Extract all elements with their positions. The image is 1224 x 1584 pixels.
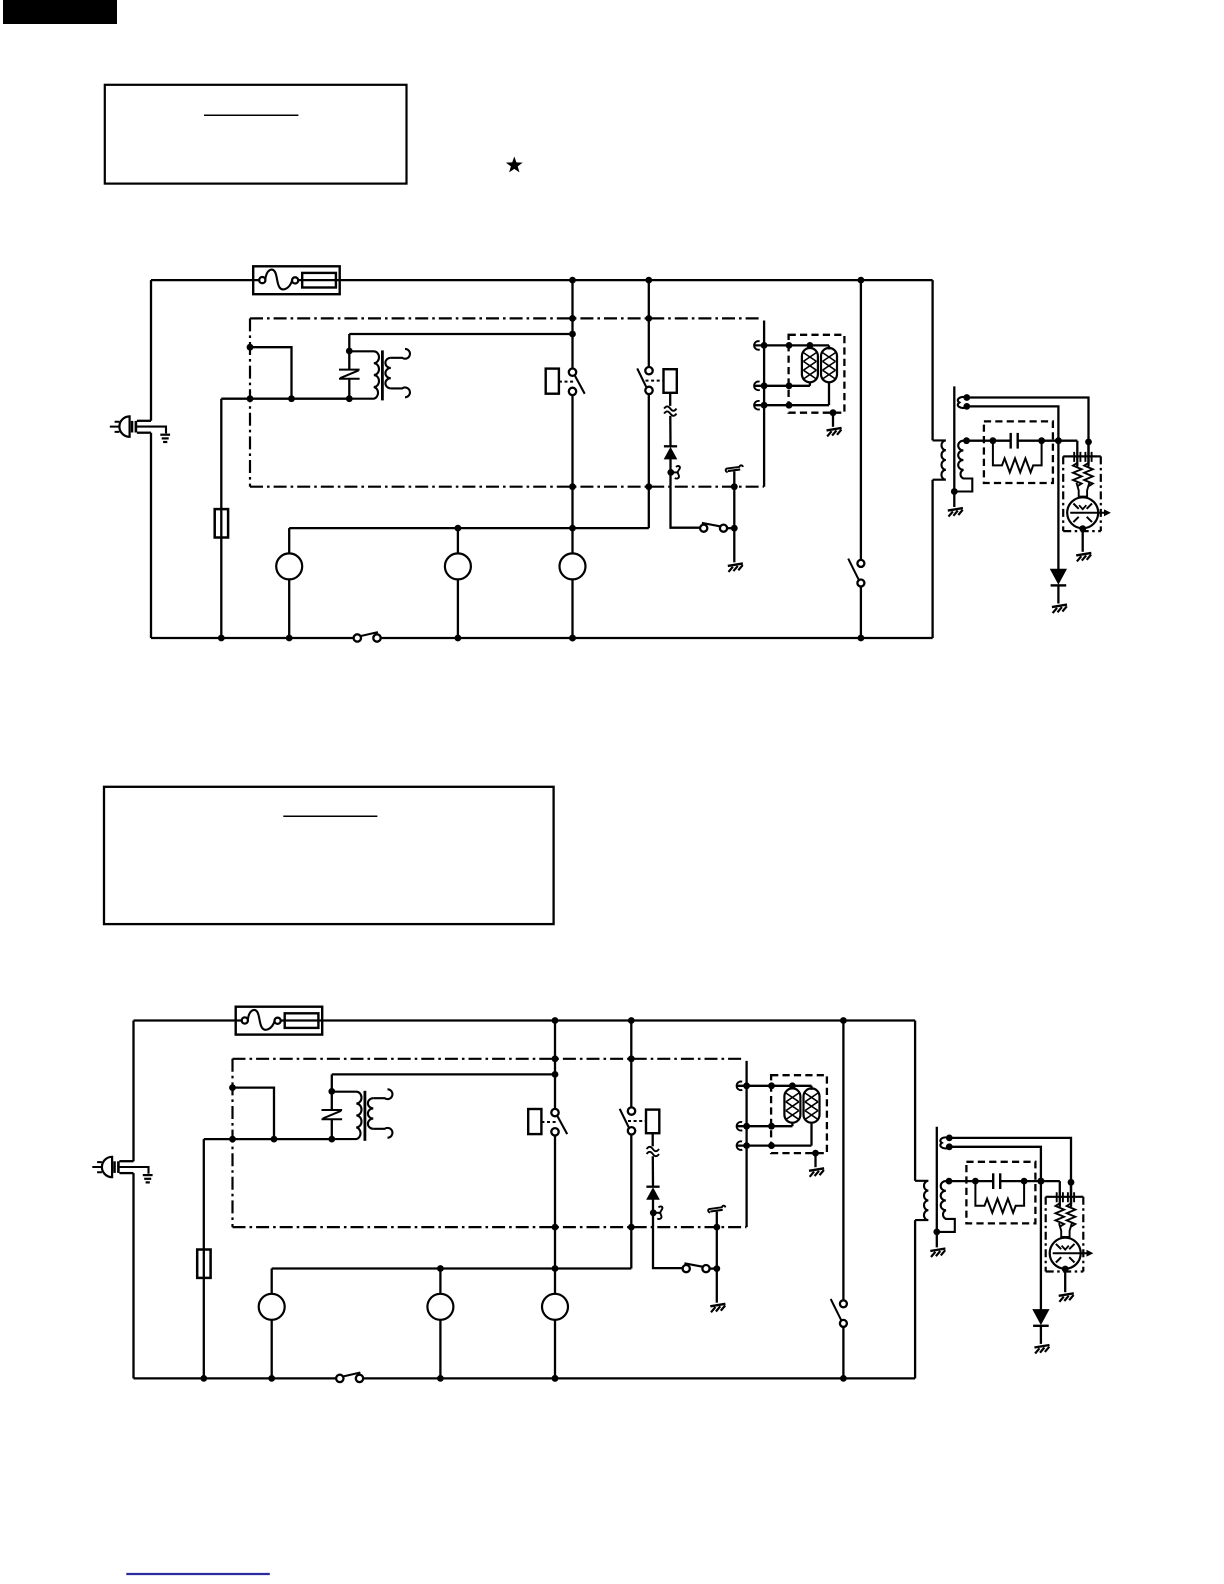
star marker [506, 157, 523, 173]
bleeder resistor (schematic 2) [975, 1181, 1024, 1213]
door switch right terminal (schematic 1) [373, 634, 380, 641]
node heater wire3 (schematic 1) [761, 402, 768, 409]
wire primary feed line (schematic 1) [221, 398, 349, 400]
node bleeder left (schematic 2) [972, 1178, 979, 1185]
wire right edge lower (schematic 2) [914, 1220, 916, 1378]
node heater top on box edge (schematic 1) [786, 342, 793, 349]
diode D1 cathode bar (schematic 2) [646, 1186, 659, 1188]
relay RY1 contact blade (schematic 2) [558, 1116, 568, 1134]
wire to chassis ground under interlock (schematic 1) [733, 528, 735, 562]
wire thermostat leg (schematic 2) [716, 1212, 718, 1269]
chassis ground at T2 (schematic 1) [948, 508, 963, 511]
breaker sine element (schematic 1) [265, 270, 292, 290]
wire lamp-motor bus (schematic 2) [272, 1267, 632, 1269]
node T2 secondary top (schematic 1) [963, 437, 970, 444]
T2 filament winding curl (schematic 2) [940, 1137, 949, 1148]
wire monitor branch lower (schematic 2) [630, 1135, 632, 1269]
wire HV line left (schematic 1) [967, 440, 1011, 442]
wire HV diode to ground (schematic 1) [1057, 585, 1059, 603]
AC plug lead top (schematic 1) [137, 420, 151, 422]
underline in note box 1 [204, 114, 298, 116]
node HV junction (schematic 1) [1055, 437, 1062, 444]
magnetron antenna arrowhead (schematic 1) [1104, 509, 1111, 516]
breaker terminal circle right (schematic 2) [275, 1018, 281, 1024]
earth ground symbol at plug (schematic 1) [160, 434, 170, 436]
heater unit dashed box (schematic 1) [789, 335, 845, 413]
fan motor M2 (schematic 1) [560, 553, 586, 579]
HV capacitor unit dashed box (schematic 1) [984, 421, 1053, 483]
page corner black tab [3, 0, 117, 24]
thermal element squiggle (schematic 1) [664, 406, 676, 410]
node door sense at top wire (schematic 2) [840, 1017, 847, 1024]
node heater wire1 (schematic 1) [761, 342, 768, 349]
wire heater ground stem (schematic 2) [814, 1153, 816, 1167]
wire left edge lower (schematic 1) [150, 433, 152, 638]
magnetron shield box top stubs (schematic 2) [1046, 1196, 1052, 1198]
diode D1 triangle (schematic 2) [647, 1188, 659, 1199]
magnetron internal ticks (schematic 1) [1073, 504, 1092, 523]
heater element left hatch (schematic 1) [803, 353, 816, 379]
heater element right (schematic 1) [821, 348, 837, 382]
magnetron tube circle (schematic 1) [1067, 497, 1098, 528]
node relay branch bottom (schematic 1) [569, 635, 576, 642]
wire relay branch upper (schematic 1) [571, 280, 573, 368]
pigtail heater top (schematic 1) [754, 341, 760, 350]
wire bottom return line left (schematic 1) [151, 637, 354, 639]
heater element left hatch (schematic 2) [786, 1093, 799, 1119]
wire turntable motor top stub (schematic 2) [439, 1269, 441, 1294]
control unit boundary top (dash-dot) (schematic 2) [233, 1058, 744, 1060]
choke coil right (schematic 1) [1084, 463, 1093, 486]
chassis ground at magnetron (schematic 2) [1059, 1293, 1074, 1296]
node primary feed at jog (schematic 2) [271, 1136, 278, 1143]
transformer T2 secondary winding (schematic 1) [954, 441, 972, 492]
door switch left terminal (schematic 1) [354, 634, 361, 641]
wire oven lamp bottom stub (schematic 2) [271, 1320, 273, 1379]
door sense switch top terminal (schematic 1) [857, 560, 864, 567]
node bus at fan motor (schematic 1) [569, 525, 576, 532]
node bus at fan motor (schematic 2) [552, 1265, 559, 1272]
wire HV line right (schematic 2) [1000, 1180, 1060, 1182]
breaker sine element (schematic 2) [248, 1010, 275, 1030]
node bus at turntable motor (schematic 1) [455, 525, 462, 532]
node on boundary left lower (schematic 1) [247, 395, 254, 402]
wire heater mid riser (schematic 2) [791, 1122, 793, 1126]
node interlock ground junction (schematic 2) [713, 1265, 720, 1272]
wire top supply line (left of fuse unit) (schematic 2) [134, 1019, 242, 1021]
wire filament lead A (schematic 1) [967, 398, 1089, 467]
fan motor M2 (schematic 2) [542, 1294, 568, 1320]
wire HV line right (schematic 1) [1018, 440, 1078, 442]
monitor switch bottom terminal (schematic 1) [645, 387, 652, 394]
magnetron cathode V (schematic 2) [1062, 1246, 1069, 1250]
node heater box ground (schematic 1) [830, 409, 837, 416]
node heater bottom on box edge (schematic 2) [768, 1142, 775, 1149]
chassis ground at heater box (schematic 2) [809, 1168, 824, 1171]
transformer T1 secondary winding (schematic 1) [385, 358, 390, 389]
fuse F2 rectangle (schematic 2) [197, 1250, 210, 1278]
noise filter box FU (schematic 1) [253, 266, 340, 294]
earth ground symbol at plug (schematic 2) [143, 1174, 153, 1176]
wire varistor branch upper (schematic 2) [331, 1074, 333, 1110]
transformer T2 primary winding (schematic 1) [933, 440, 946, 479]
chassis ground at T2 (schematic 2) [930, 1249, 945, 1252]
transformer T1 core (schematic 2) [363, 1091, 366, 1141]
node bleeder right (schematic 2) [1021, 1178, 1028, 1185]
wire relay branch lower (schematic 1) [571, 395, 573, 553]
door switch blade (schematic 1) [360, 632, 378, 636]
node heater bottom on box edge (schematic 1) [786, 402, 793, 409]
node relay branch bottom (schematic 2) [552, 1375, 559, 1382]
wire fan motor bottom stub (schematic 1) [571, 579, 573, 638]
node varistor bottom (schematic 2) [328, 1136, 335, 1143]
control unit boundary left (dash-dot) (schematic 1) [249, 318, 251, 486]
fuse F1 rectangle (schematic 2) [285, 1013, 319, 1028]
node fuse branch bottom (schematic 2) [200, 1375, 207, 1382]
door sense switch bottom terminal (schematic 1) [857, 580, 864, 587]
node relay branch on boundary bottom (schematic 2) [552, 1224, 559, 1231]
node turntable motor bottom (schematic 1) [455, 635, 462, 642]
node fan motor bottom (schematic 1) [569, 635, 576, 642]
door switch right terminal (schematic 2) [356, 1375, 363, 1382]
node T2 secondary ground (schematic 1) [951, 488, 958, 495]
wire monitor branch upper (schematic 2) [630, 1021, 632, 1108]
node on boundary top at monitor branch (schematic 1) [645, 315, 652, 322]
wire heater top (schematic 2) [737, 1085, 812, 1087]
wire heater top drop (schematic 1) [828, 345, 830, 349]
wire fuse branch vertical (schematic 2) [203, 1139, 205, 1378]
bleeder resistor (schematic 1) [993, 441, 1042, 473]
wire thermostat leg (schematic 1) [733, 471, 735, 528]
feedthrough bar (schematic 1) [1069, 455, 1097, 457]
magnetron cathode V (schematic 1) [1079, 505, 1086, 509]
magnetron shield box top stubs (schematic 1) [1063, 455, 1069, 457]
wire heater branch vertical (schematic 1) [763, 321, 765, 487]
node bleeder right (schematic 1) [1038, 437, 1045, 444]
heater element right hatch (schematic 2) [805, 1093, 818, 1119]
interlock switch right terminal (schematic 1) [720, 525, 727, 532]
door sense switch blade (schematic 2) [831, 1299, 841, 1320]
AC plug lead top (schematic 2) [119, 1160, 133, 1162]
node on boundary left upper (schematic 2) [229, 1084, 236, 1091]
wire heater mid riser (schematic 1) [809, 382, 811, 386]
interlock switch left terminal (schematic 1) [700, 525, 707, 532]
transformer T1 primary winding (schematic 2) [332, 1092, 362, 1139]
wire HV diode stem (schematic 2) [1040, 1181, 1042, 1310]
magnetron tube circle (schematic 2) [1050, 1238, 1081, 1269]
node on boundary top at relay branch (schematic 2) [552, 1055, 559, 1062]
wire squiggle to diode (schematic 1) [669, 416, 672, 446]
wire bottom return line left (schematic 2) [134, 1377, 337, 1379]
magnetron funnel (schematic 1) [1077, 483, 1090, 498]
wire heater bottom (schematic 2) [737, 1144, 812, 1146]
interlock switch blade (schematic 2) [684, 1263, 702, 1266]
monitor switch top terminal (schematic 1) [645, 367, 652, 374]
monitor switch bottom terminal (schematic 2) [628, 1127, 635, 1134]
wire oven lamp bottom stub (schematic 1) [288, 579, 290, 638]
wire door sense branch upper (schematic 2) [842, 1021, 844, 1301]
monitor switch blade (schematic 1) [637, 368, 646, 387]
monitor switch top terminal (schematic 2) [628, 1107, 635, 1114]
door sense switch top terminal (schematic 2) [840, 1300, 847, 1307]
node control supply at relay branch (schematic 2) [552, 1071, 559, 1078]
node oven lamp bottom (schematic 2) [268, 1375, 275, 1382]
node varistor top (schematic 1) [346, 348, 353, 355]
thermostat curl (schematic 2) [708, 1206, 725, 1213]
transformer T1 core (schematic 1) [381, 350, 384, 400]
note box 2 [104, 787, 554, 924]
node filament lead B (schematic 2) [946, 1143, 953, 1150]
wire top supply line (right of fuse unit) (schematic 1) [298, 279, 932, 281]
node heater top at element (schematic 2) [789, 1082, 796, 1089]
AC plug body (schematic 2) [102, 1157, 112, 1177]
wire bottom return line right (schematic 1) [381, 637, 933, 639]
wire monitor branch upper (schematic 1) [648, 280, 650, 367]
transformer T2 secondary winding (schematic 2) [937, 1181, 955, 1232]
transformer T1 secondary winding (schematic 2) [368, 1098, 373, 1129]
node relay branch on boundary bottom (schematic 1) [569, 483, 576, 490]
magnetron shield box right edge (schematic 1) [1100, 456, 1102, 531]
magnetron shield box bottom edge (schematic 1) [1063, 530, 1101, 532]
relay RY1 contact bottom terminal (schematic 2) [551, 1128, 558, 1135]
wire filament lead A (schematic 2) [949, 1138, 1071, 1207]
door sense switch bottom terminal (schematic 2) [840, 1320, 847, 1327]
door switch left terminal (schematic 2) [336, 1375, 343, 1382]
node on boundary left upper (schematic 1) [247, 344, 254, 351]
thermostat curl (schematic 1) [726, 465, 743, 472]
wire top supply line (right of fuse unit) (schematic 2) [281, 1019, 915, 1021]
thermal element squiggle (schematic 2) [647, 1147, 659, 1151]
wire heater branch vertical (schematic 2) [745, 1061, 747, 1227]
node heater top at element (schematic 1) [807, 342, 814, 349]
control unit boundary bottom (dash-dot) (schematic 1) [250, 486, 764, 488]
varistor RV1 (schematic 1) [339, 370, 360, 379]
wire choke right lead (schematic 1) [1087, 441, 1089, 464]
pigtail at monitor leg node (schematic 2) [655, 1212, 661, 1214]
HV diode triangle (schematic 2) [1033, 1310, 1049, 1325]
pigtail at monitor leg node (schematic 1) [672, 471, 678, 473]
thermal cutout box (schematic 2) [646, 1110, 659, 1134]
magnetron shield box left edge (schematic 2) [1045, 1197, 1047, 1272]
node fan motor bottom (schematic 2) [552, 1375, 559, 1382]
chassis ground at magnetron (schematic 1) [1076, 553, 1091, 556]
node monitor branch at top wire (schematic 2) [628, 1017, 635, 1024]
feedthrough bar (schematic 2) [1052, 1196, 1080, 1198]
HV diode cathode bar (schematic 1) [1051, 584, 1067, 586]
wire relay branch upper (schematic 2) [554, 1021, 556, 1109]
node on boundary left lower (schematic 2) [229, 1136, 236, 1143]
wire jog from boundary to primary line (schematic 2) [233, 1088, 275, 1140]
HV diode triangle (schematic 1) [1051, 569, 1067, 584]
wire magnetron ground stem (schematic 2) [1064, 1269, 1066, 1292]
control unit boundary left (dash-dot) (schematic 2) [231, 1059, 233, 1227]
node thermostat on boundary bottom (schematic 1) [731, 483, 738, 490]
node with pigtail on monitor leg (schematic 1) [667, 469, 674, 476]
transformer T2 core / secondary ground lead (schematic 2) [936, 1127, 938, 1248]
node heater wire1 (schematic 2) [743, 1082, 750, 1089]
AC plug prongs (schematic 2) [92, 1162, 102, 1172]
wire diode to node (schematic 2) [652, 1199, 654, 1227]
node T2 secondary top (schematic 2) [946, 1178, 953, 1185]
node relay branch at top wire (schematic 1) [569, 277, 576, 284]
wire left edge lower (schematic 2) [132, 1173, 134, 1378]
note box 1 [105, 85, 407, 184]
wire door sense branch lower (schematic 1) [860, 587, 862, 639]
AC plug face bars (schematic 1) [131, 421, 134, 433]
wire left edge upper (schematic 1) [150, 280, 152, 421]
wire monitor leg to interlock (schematic 2) [653, 1227, 682, 1268]
wire lamp-motor bus (schematic 1) [289, 527, 649, 529]
wire varistor branch lower (schematic 2) [331, 1119, 333, 1139]
wire left edge upper (schematic 2) [132, 1021, 134, 1162]
wire door sense branch upper (schematic 1) [860, 280, 862, 560]
wire right edge upper (schematic 1) [931, 280, 933, 440]
choke coil left (schematic 2) [1056, 1203, 1065, 1226]
node heater wire2 (schematic 2) [743, 1123, 750, 1130]
magnetron shield box left edge (schematic 1) [1062, 456, 1064, 531]
node primary feed at jog (schematic 1) [288, 395, 295, 402]
interlock switch blade (schematic 1) [702, 523, 720, 526]
node bus at turntable motor (schematic 2) [437, 1265, 444, 1272]
relay RY1 link (dashed) (schematic 1) [559, 381, 575, 383]
diode D1 triangle (schematic 1) [665, 448, 677, 459]
door sense switch blade (schematic 1) [848, 559, 858, 580]
wire turntable motor top stub (schematic 1) [457, 528, 459, 553]
choke coil right (schematic 2) [1067, 1203, 1076, 1226]
interlock switch right terminal (schematic 2) [702, 1265, 709, 1272]
wire interlock to ground node (schematic 1) [727, 527, 734, 529]
HV capacitor plates (schematic 2) [992, 1173, 994, 1189]
node on boundary top at monitor branch (schematic 2) [628, 1055, 635, 1062]
relay RY1 contact blade (schematic 1) [575, 376, 585, 394]
wire heater mid (schematic 1) [754, 385, 810, 387]
control unit boundary bottom (dash-dot) (schematic 2) [233, 1226, 747, 1228]
wire right edge upper (schematic 2) [914, 1021, 916, 1181]
node door sense at top wire (schematic 1) [858, 277, 865, 284]
T2 filament winding curl (schematic 1) [958, 397, 967, 408]
chassis ground at heater box (schematic 1) [827, 428, 842, 431]
AC plug lead bottom (schematic 2) [119, 1172, 133, 1174]
chassis ground under interlock (schematic 2) [710, 1304, 725, 1307]
wire control supply line (schematic 2) [332, 1073, 555, 1075]
wire right edge lower (schematic 1) [931, 480, 933, 638]
wire HV line drop to choke (schematic 2) [1059, 1181, 1061, 1207]
breaker terminal circle left (schematic 2) [242, 1017, 248, 1023]
wire heater bottom riser (schematic 1) [828, 382, 830, 406]
node heater wire3 (schematic 2) [743, 1142, 750, 1149]
relay RY1 contact top terminal (schematic 1) [569, 369, 576, 376]
wire filament lead B (schematic 1) [967, 406, 1059, 440]
node heater mid on box edge (schematic 2) [768, 1123, 775, 1130]
node on boundary top at relay branch (schematic 1) [569, 315, 576, 322]
node varistor bottom (schematic 1) [346, 395, 353, 402]
relay RY1 coil box (schematic 1) [546, 369, 559, 394]
thermal cutout box (schematic 1) [664, 369, 677, 393]
wire squiggle to diode (schematic 2) [652, 1156, 655, 1186]
wire interlock to ground node (schematic 2) [710, 1267, 717, 1269]
node filament lead B (schematic 1) [963, 403, 970, 410]
fuse F2 rectangle (schematic 1) [215, 509, 228, 537]
chassis ground at HV diode (schematic 2) [1034, 1345, 1049, 1348]
node turntable motor bottom (schematic 2) [437, 1375, 444, 1382]
wire monitor leg to interlock (schematic 1) [671, 487, 700, 528]
relay RY1 contact top terminal (schematic 2) [551, 1109, 558, 1116]
monitor link (dashed) (schematic 1) [646, 380, 664, 382]
wire bottom return line right (schematic 2) [363, 1377, 915, 1379]
node heater top on box edge (schematic 2) [768, 1082, 775, 1089]
breaker terminal circle right (schematic 1) [292, 277, 298, 283]
feedthrough ticks (schematic 1) [1074, 452, 1091, 462]
wire heater top drop (schematic 2) [810, 1086, 812, 1090]
wire heater mid (schematic 2) [737, 1125, 793, 1127]
wire fan motor bottom stub (schematic 2) [554, 1320, 556, 1379]
AC plug body (schematic 1) [119, 416, 129, 436]
node thermostat on boundary bottom (schematic 2) [713, 1224, 720, 1231]
node fuse branch bottom (schematic 1) [218, 635, 225, 642]
turntable motor M1 (schematic 2) [427, 1294, 453, 1320]
node door sense bottom (schematic 2) [840, 1375, 847, 1382]
fuse F2 element line (schematic 2) [203, 1250, 205, 1278]
diode D1 cathode bar (schematic 1) [664, 445, 677, 447]
node monitor branch at top wire (schematic 1) [645, 277, 652, 284]
node oven lamp bottom (schematic 1) [286, 635, 293, 642]
fuse F1 rectangle (schematic 1) [302, 273, 336, 288]
monitor switch blade (schematic 2) [620, 1109, 629, 1128]
wire top supply line (left of fuse unit) (schematic 1) [151, 279, 259, 281]
node door sense bottom (schematic 1) [858, 635, 865, 642]
node varistor top (schematic 2) [328, 1088, 335, 1095]
node monitor branch on boundary bottom (schematic 1) [645, 483, 652, 490]
HV capacitor plates (schematic 1) [1010, 433, 1012, 449]
magnetron internal ticks (schematic 2) [1056, 1244, 1075, 1263]
wire jog from boundary to primary line (schematic 1) [250, 347, 292, 399]
monitor link (dashed) (schematic 2) [628, 1120, 646, 1122]
T1 secondary top lead with curl (schematic 2) [373, 1089, 392, 1099]
transformer T2 core / secondary ground lead (schematic 1) [953, 386, 955, 507]
wire monitor branch lower (schematic 1) [648, 394, 650, 528]
magnetron antenna line (schematic 2) [1053, 1252, 1087, 1254]
heater unit dashed box (schematic 2) [771, 1075, 827, 1153]
wire filament lead B (schematic 2) [949, 1147, 1041, 1181]
magnetron antenna arrowhead (schematic 2) [1087, 1250, 1094, 1257]
magnetron shield box right edge (schematic 2) [1082, 1197, 1084, 1272]
magnetron shield box bottom edge (schematic 2) [1046, 1270, 1084, 1272]
wire fuse branch vertical (schematic 1) [220, 399, 222, 638]
wire heater bottom riser (schematic 2) [810, 1122, 812, 1146]
wire below thermal cutout (schematic 2) [652, 1133, 654, 1146]
noise filter box FU (schematic 2) [236, 1007, 323, 1035]
turntable motor M1 (schematic 1) [445, 553, 471, 579]
AC plug earth lead (schematic 2) [119, 1167, 148, 1174]
node magnetron cathode (schematic 2) [1062, 1266, 1069, 1273]
chassis ground under interlock (schematic 1) [728, 563, 743, 566]
transformer T1 primary winding (schematic 1) [349, 351, 379, 398]
node filament lead A junction (schematic 2) [1068, 1179, 1075, 1186]
magnetron antenna line (schematic 1) [1070, 512, 1104, 514]
pigtail heater mid (schematic 1) [754, 382, 760, 391]
heater element right (schematic 2) [804, 1088, 820, 1122]
varistor RV1 (schematic 2) [322, 1110, 343, 1119]
wire relay branch lower (schematic 2) [554, 1136, 556, 1294]
oven lamp L1 (schematic 1) [276, 553, 302, 579]
wire HV line left (schematic 2) [949, 1180, 993, 1182]
transformer T2 primary winding (schematic 2) [915, 1181, 928, 1220]
wire turntable motor bottom stub (schematic 1) [457, 579, 459, 638]
node heater mid on box edge (schematic 1) [786, 382, 793, 389]
node bleeder left (schematic 1) [990, 437, 997, 444]
wire heater bottom (schematic 1) [754, 404, 829, 406]
node T2 secondary ground (schematic 2) [933, 1229, 940, 1236]
